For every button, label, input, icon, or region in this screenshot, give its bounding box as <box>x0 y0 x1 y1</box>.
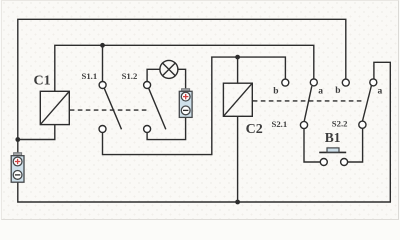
wire button B1 to S2.2 common <box>348 128 363 162</box>
svg-text:S2.1: S2.1 <box>272 119 288 129</box>
wire S1.1 bottom to riser to node B <box>103 57 286 155</box>
svg-text:C1: C1 <box>34 74 51 89</box>
switch S2.1 contact a <box>310 79 317 86</box>
wire S1.2 top to lamp <box>147 69 160 81</box>
dashed link C2 to S2.1/S2.2 <box>253 100 365 102</box>
switch S1.2 <box>144 82 166 133</box>
battery G2 (right, lamp circuit) <box>179 89 192 118</box>
switch S2.1 contact b <box>282 79 289 86</box>
junction node at S1.1 top <box>100 43 105 48</box>
junction node at battery G1 <box>15 137 20 142</box>
lamp H1 <box>160 60 178 78</box>
wire battery B2 bottom to S1.2 bottom <box>147 117 186 139</box>
switch S1.1 <box>99 82 122 133</box>
wire bottom bus from battery- to right vertical up to S2.2 contact a <box>18 62 391 202</box>
svg-text:S2.2: S2.2 <box>332 118 348 128</box>
dashed link C1 to S1.1/S1.2 <box>70 109 150 111</box>
junction node at C2 bottom / bus <box>235 200 240 205</box>
svg-text:S1.1: S1.1 <box>82 71 98 81</box>
wire lamp to battery B2 top <box>178 69 186 88</box>
svg-text:b: b <box>335 86 340 96</box>
switch S2.2 contact b <box>342 79 349 86</box>
wire outer loop: battery+ up left side, across top to S2.2 contact b <box>18 19 346 139</box>
wire C2 top <box>237 57 239 83</box>
svg-text:b: b <box>273 87 278 97</box>
switch S2.1 common + lever <box>300 86 311 128</box>
svg-text:B1: B1 <box>325 130 341 145</box>
svg-text:S1.2: S1.2 <box>122 71 138 81</box>
svg-text:C2: C2 <box>246 122 263 137</box>
wire S2.1 common down to button B1 <box>304 129 320 162</box>
relay coil C1 <box>40 91 69 124</box>
switch S2.2 contact a <box>370 79 377 86</box>
junction node at C2 top <box>235 55 240 60</box>
svg-text:a: a <box>318 87 323 97</box>
wire C1 top to bus A and down to S2.1 contact a <box>55 45 314 91</box>
wire C1 bottom to battery junction <box>18 125 55 140</box>
relay coil C2 <box>223 83 252 116</box>
wire C2 bottom to bus <box>237 116 239 202</box>
push button B1 <box>319 148 347 166</box>
battery G1 (left) <box>11 140 24 183</box>
switch S2.2 common + lever <box>359 86 372 129</box>
wire S1.1 top drop <box>102 45 104 81</box>
svg-text:a: a <box>378 87 383 97</box>
